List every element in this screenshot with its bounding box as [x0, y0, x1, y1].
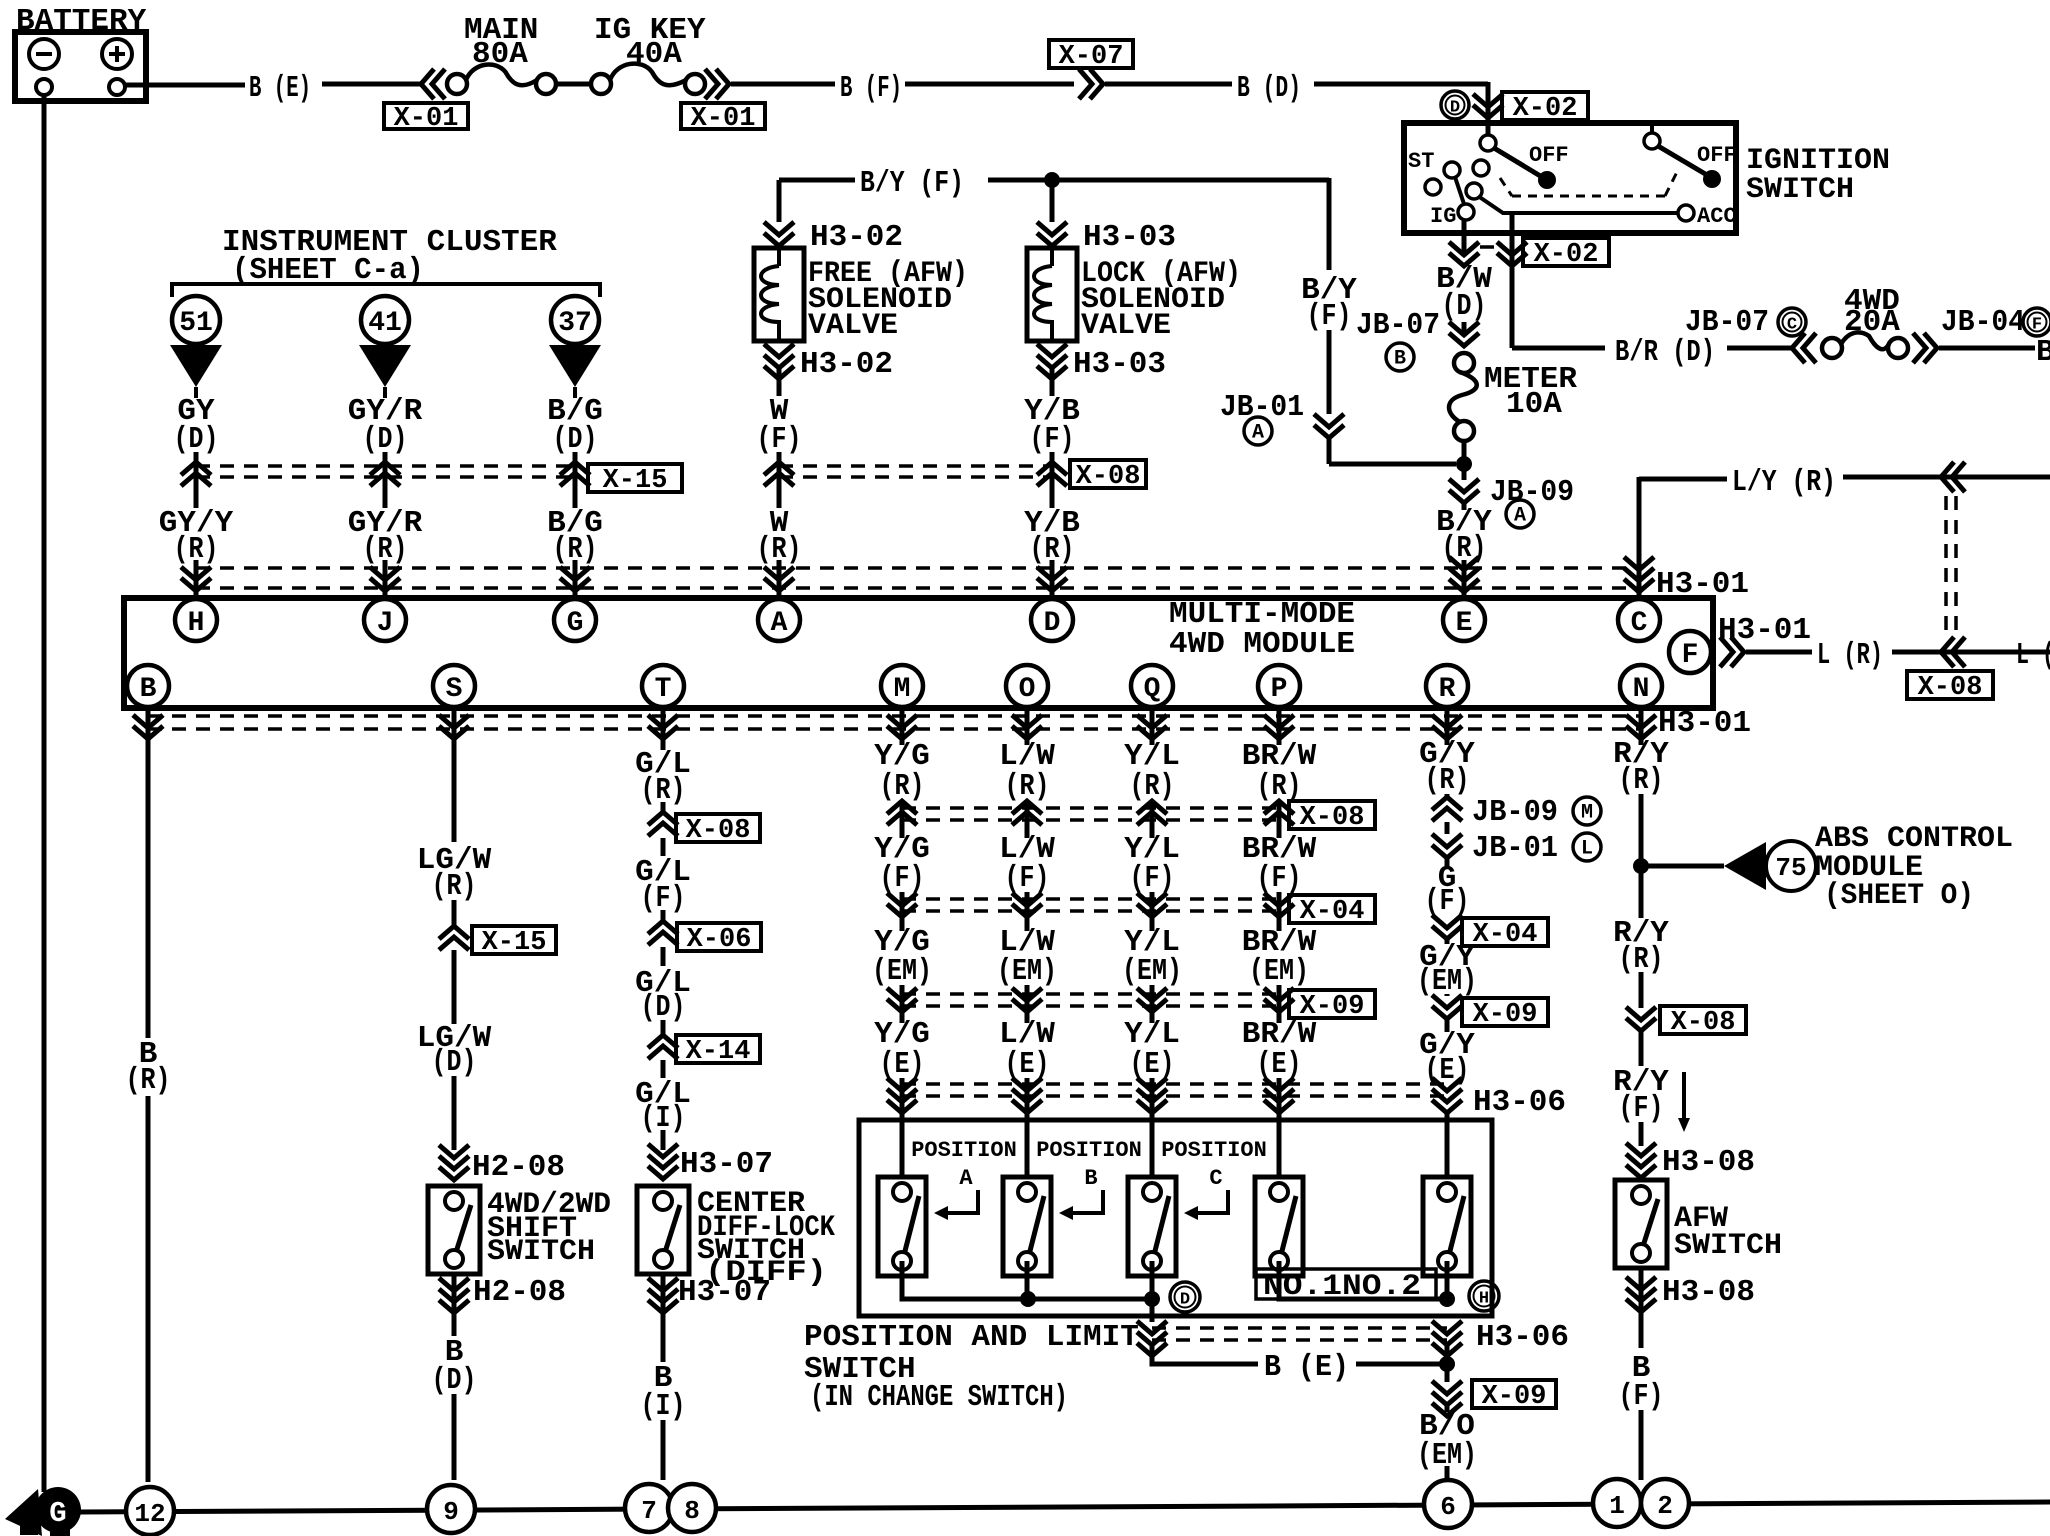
- wire: [1445, 1019, 1450, 1032]
- wire: [125, 83, 245, 88]
- fuse METER 10A: [1454, 353, 1474, 373]
- wire T to terminals 7 8: [661, 1420, 666, 1480]
- connector box X-01 left: [384, 103, 468, 129]
- svg-text:OFF: OFF: [1697, 143, 1737, 168]
- battery plus sign v: [115, 46, 119, 62]
- connector X-15 arrows lower: [439, 926, 469, 950]
- wire: [1462, 503, 1467, 510]
- wire: [1025, 892, 1030, 931]
- wire: [1639, 1268, 1644, 1348]
- wire: [1445, 858, 1450, 866]
- position switch 3: [1128, 1177, 1176, 1276]
- svg-text:(R): (R): [1619, 763, 1664, 798]
- wire: [322, 82, 421, 87]
- wire into position box: [1025, 1120, 1030, 1177]
- svg-text:B (F): B (F): [840, 71, 902, 106]
- wire: [1445, 939, 1450, 944]
- svg-text:(E): (E): [1005, 1047, 1050, 1082]
- wire: [1445, 1405, 1450, 1412]
- module pin A: [758, 599, 800, 641]
- wire: [1641, 864, 1724, 869]
- svg-text:L (R): L (R): [1817, 638, 1883, 673]
- ignition rotor contacts: [1473, 160, 1489, 176]
- wire: [1150, 1299, 1155, 1322]
- connector X-08 arrows on L/Y: [1941, 462, 1965, 492]
- wire: [1150, 892, 1155, 931]
- svg-text:POSITION AND LIMIT: POSITION AND LIMIT: [804, 1320, 1139, 1355]
- ignition dashed rotor path: [1500, 178, 1512, 196]
- svg-text:X-15: X-15: [603, 466, 668, 496]
- wire: [900, 1078, 905, 1120]
- ignition B contact and left OFF lever: [1480, 135, 1496, 151]
- wire: [573, 452, 578, 508]
- wire S to terminal 9: [452, 1394, 457, 1480]
- wire: [900, 740, 905, 742]
- connector box X-08 T: [676, 814, 760, 842]
- position switch 2: [1003, 1177, 1051, 1276]
- wire: [1150, 707, 1155, 745]
- wire: [661, 1020, 666, 1035]
- svg-text:R: R: [1439, 674, 1456, 705]
- return arrow line: [946, 1190, 978, 1213]
- cluster pin 37: [551, 296, 599, 344]
- module pin C: [1618, 599, 1660, 641]
- connector H2-08 arrows lower: [439, 1278, 469, 1313]
- connector arrows right: [1913, 333, 1937, 363]
- wire: [1150, 800, 1155, 838]
- connector X-07 arrows: [1079, 69, 1103, 99]
- svg-text:POSITION: POSITION: [1161, 1138, 1267, 1163]
- wire: [1462, 322, 1467, 335]
- wire: [900, 800, 905, 838]
- svg-text:X-09: X-09: [1482, 1382, 1547, 1412]
- H3-01 lower dashed lines: [148, 714, 1641, 718]
- wire: [1445, 914, 1450, 919]
- connector H3-03 top arrows: [1037, 222, 1067, 246]
- wire to terminal 6: [1445, 1466, 1450, 1482]
- connector box X-02 top: [1502, 92, 1588, 120]
- svg-text:X-02: X-02: [1534, 240, 1599, 270]
- connector H3-03 bottom arrows: [1037, 344, 1067, 379]
- ignition ST-IG lever: [1455, 177, 1464, 204]
- svg-text:X-14: X-14: [686, 1037, 751, 1067]
- wire: [777, 248, 781, 266]
- terminal 12: [126, 1487, 174, 1535]
- wire into position box: [1150, 1120, 1155, 1177]
- wire: [1682, 1072, 1686, 1118]
- svg-text:L (R: L (R: [2016, 638, 2050, 673]
- stub: [573, 387, 577, 398]
- wire: [1356, 1362, 1447, 1367]
- svg-text:SWITCH: SWITCH: [1674, 1229, 1782, 1263]
- X-02 dash: [1480, 245, 1498, 249]
- svg-text:JB-01: JB-01: [1220, 390, 1304, 425]
- wire battery minus to ground: [42, 95, 47, 1492]
- wire: [1939, 346, 2035, 351]
- svg-text:S: S: [446, 674, 463, 705]
- svg-text:H3-03: H3-03: [1083, 220, 1176, 255]
- row3 dashes: [902, 897, 1279, 901]
- svg-text:ST: ST: [1408, 149, 1434, 174]
- ref circle M: [1573, 797, 1601, 825]
- connector H3-08 arrows upper: [1626, 1143, 1656, 1178]
- wire: [1445, 1345, 1450, 1382]
- wire: [1277, 740, 1282, 742]
- svg-text:NO.1NO.2: NO.1NO.2: [1263, 1270, 1421, 1304]
- svg-text:JB-01: JB-01: [1472, 831, 1558, 866]
- wire: [731, 82, 835, 87]
- svg-text:A: A: [1252, 422, 1264, 445]
- svg-text:J: J: [377, 608, 394, 639]
- wire L(R): [1746, 650, 1812, 655]
- wire: [661, 838, 666, 856]
- cluster arrow 51: [170, 345, 222, 387]
- ignition left OFF dot: [1538, 171, 1556, 189]
- wire: [661, 802, 666, 812]
- wire: [1445, 994, 1450, 996]
- wire B(D) down to ignition: [1486, 82, 1491, 135]
- connector X-08 arrows T: [648, 812, 678, 836]
- wire: [777, 320, 781, 341]
- connector box X-08 row2: [1289, 801, 1375, 829]
- connector JB arrows left: [1792, 333, 1816, 363]
- bracket: [172, 284, 600, 297]
- connector H3-02 top arrows: [764, 222, 794, 246]
- ignition switch box: [1404, 123, 1736, 233]
- bus2: [1279, 1261, 1447, 1299]
- wire L/Y corner: [1639, 477, 1727, 482]
- junction B(E): [1439, 1356, 1455, 1372]
- connector box X-01 right: [681, 103, 765, 129]
- row2 dashes: [902, 806, 1279, 810]
- connector H3-06 arrows lower right: [1432, 1321, 1462, 1356]
- junction sw2: [1020, 1291, 1036, 1307]
- connector box X-15 lower: [472, 926, 556, 954]
- svg-text:6: 6: [1440, 1492, 1456, 1522]
- junction D: [1144, 1291, 1160, 1307]
- svg-text:41: 41: [368, 308, 402, 339]
- connector H3-08 arrows lower: [1626, 1277, 1656, 1312]
- svg-text:(EM): (EM): [1417, 964, 1477, 999]
- svg-text:L/Y (R): L/Y (R): [1732, 465, 1836, 500]
- ref circle D position: [1170, 1282, 1200, 1312]
- svg-text:VALVE: VALVE: [1081, 309, 1171, 343]
- wire: [452, 707, 457, 745]
- svg-text:37: 37: [558, 308, 592, 339]
- wire: [779, 178, 855, 183]
- svg-text:G: G: [567, 608, 584, 639]
- svg-text:(D): (D): [174, 422, 219, 457]
- switch AFW: [1615, 1180, 1667, 1268]
- wire R into position box: [1445, 1113, 1450, 1177]
- connector X-02 bottom arrows right: [1497, 242, 1527, 266]
- connector box X-08 right: [1907, 671, 1993, 699]
- battery minus sign: [36, 52, 52, 56]
- svg-text:4WD MODULE: 4WD MODULE: [1169, 627, 1355, 662]
- module pin G: [554, 599, 596, 641]
- terminal 1: [1593, 1479, 1641, 1527]
- ref circle F: [2023, 308, 2050, 336]
- wire C column: [1637, 477, 1642, 598]
- svg-text:51: 51: [179, 308, 213, 339]
- fuse 4WD 20A body: [1822, 338, 1842, 358]
- wire: [1050, 320, 1054, 341]
- svg-text:(R): (R): [1425, 763, 1470, 798]
- wire: [452, 950, 457, 1024]
- wire L(R) cont: [1892, 650, 2050, 655]
- fuse IG KEY 40A body: [591, 74, 611, 94]
- wire: [1843, 475, 2050, 480]
- svg-text:(D): (D): [432, 1363, 477, 1398]
- module pin M: [881, 665, 923, 707]
- svg-text:(E): (E): [1425, 1053, 1470, 1088]
- wire: [1025, 707, 1030, 745]
- wire: [1639, 1031, 1644, 1066]
- connector X-04 arrows R: [1432, 915, 1462, 939]
- ref circle A: [1244, 417, 1272, 445]
- connector X-01 right arrows: [705, 69, 729, 99]
- svg-text:(F): (F): [1619, 1091, 1664, 1126]
- wire: [452, 900, 457, 926]
- svg-text:H3-01: H3-01: [1718, 613, 1811, 648]
- svg-text:(E): (E): [880, 1047, 925, 1082]
- svg-text:X-08: X-08: [1300, 803, 1365, 833]
- svg-text:H3-03: H3-03: [1073, 347, 1166, 382]
- module pin J: [364, 599, 406, 641]
- wire N to terminals 1 2: [1639, 1410, 1644, 1480]
- wire: [1727, 346, 1794, 351]
- connector X-14 arrows: [648, 1035, 678, 1059]
- svg-text:B: B: [1394, 348, 1406, 371]
- ref circle C: [1778, 308, 1806, 336]
- svg-text:H2-08: H2-08: [472, 1150, 565, 1185]
- multi-mode 4wd module box: [124, 598, 1713, 708]
- wire: [777, 180, 782, 222]
- svg-text:(F): (F): [1030, 422, 1075, 457]
- wire: [1277, 707, 1282, 745]
- svg-text:H: H: [1479, 1290, 1489, 1309]
- svg-text:D: D: [1044, 608, 1061, 639]
- module pin R: [1426, 665, 1468, 707]
- wire: [452, 1274, 457, 1336]
- module pin O: [1006, 665, 1048, 707]
- svg-text:POSITION: POSITION: [911, 1138, 1017, 1163]
- stub: [383, 387, 387, 398]
- connector box X-08 upper: [1070, 460, 1146, 488]
- H3-06 lower dashes: [1152, 1326, 1447, 1330]
- switch center diff-lock switch: [637, 1186, 689, 1274]
- connector box X-06: [677, 923, 761, 951]
- svg-text:X-15: X-15: [482, 928, 547, 958]
- wire B/Y to meter junction: [1329, 462, 1456, 467]
- svg-text:C: C: [1209, 1166, 1222, 1191]
- svg-text:E: E: [1456, 608, 1473, 639]
- terminal 8: [668, 1484, 716, 1532]
- wire: [1050, 248, 1054, 266]
- connector box X-08 N: [1660, 1006, 1746, 1034]
- wire: [1105, 82, 1232, 87]
- connector JB-01 A: [1314, 414, 1344, 438]
- connector X-08 arrows N: [1626, 1007, 1656, 1031]
- svg-text:F: F: [2032, 316, 2042, 335]
- wire: [1050, 560, 1055, 598]
- FREE (AFW) solenoid valve: [754, 248, 804, 341]
- svg-text:Q: Q: [1144, 674, 1161, 705]
- svg-text:7: 7: [641, 1496, 657, 1526]
- svg-text:X-08: X-08: [1076, 462, 1141, 492]
- position switch 4: [1255, 1177, 1303, 1276]
- wire: [661, 910, 666, 921]
- svg-text:X-02: X-02: [1513, 94, 1578, 124]
- svg-text:H3-06: H3-06: [1473, 1085, 1566, 1120]
- wire: [661, 1060, 666, 1078]
- svg-text:(D): (D): [553, 422, 598, 457]
- svg-text:C: C: [1631, 608, 1648, 639]
- svg-text:(R): (R): [432, 869, 477, 904]
- position switch 5: [1423, 1177, 1471, 1276]
- terminal 7: [625, 1484, 673, 1532]
- connector X-02 top arrows: [1473, 94, 1503, 118]
- stub: [1650, 123, 1654, 134]
- wire: [1462, 441, 1467, 470]
- svg-text:B (D): B (D): [1237, 71, 1301, 106]
- bus1: [902, 1261, 1152, 1299]
- svg-text:C: C: [1787, 316, 1797, 335]
- svg-text:H3-01: H3-01: [1658, 706, 1751, 741]
- wire: [146, 740, 151, 1038]
- connector X-09 arrows bottom: [1432, 1381, 1462, 1416]
- wire: [777, 368, 782, 396]
- svg-text:(E): (E): [1257, 1047, 1302, 1082]
- svg-text:X-08: X-08: [1918, 673, 1983, 703]
- cluster pin 41: [361, 296, 409, 344]
- svg-text:H3-06: H3-06: [1476, 1320, 1569, 1355]
- wire: [1025, 1078, 1030, 1120]
- svg-text:T: T: [655, 674, 672, 705]
- wire: [661, 1274, 666, 1362]
- svg-text:B: B: [1084, 1166, 1097, 1191]
- wire: [1639, 794, 1644, 918]
- svg-text:B/Y (F): B/Y (F): [860, 166, 964, 201]
- svg-text:H3-08: H3-08: [1662, 1145, 1755, 1180]
- wire: [452, 1076, 457, 1150]
- LOCK (AFW) solenoid valve: [1027, 248, 1077, 341]
- wire: [452, 740, 457, 842]
- svg-text:(E): (E): [1130, 1047, 1175, 1082]
- svg-text:P: P: [1271, 674, 1288, 705]
- connector box X-02 bottom: [1523, 238, 1609, 266]
- H3-06 dashes: [902, 1082, 1447, 1086]
- wire: [1050, 368, 1055, 396]
- ref circle B: [1386, 343, 1414, 371]
- module pin B: [127, 665, 169, 707]
- svg-text:A: A: [771, 608, 788, 639]
- svg-text:(SHEET O): (SHEET O): [1824, 879, 1974, 913]
- wire: [1462, 220, 1467, 255]
- module pin S: [433, 665, 475, 707]
- fuse MAIN 80A body: [447, 74, 467, 94]
- svg-text:(F): (F): [1005, 861, 1050, 896]
- connector box X-14: [676, 1035, 760, 1063]
- switch 4WD/2WD shift switch: [428, 1186, 480, 1274]
- svg-text:(R): (R): [126, 1063, 171, 1098]
- connector box X-09 R: [1462, 998, 1548, 1026]
- svg-text:2: 2: [1657, 1491, 1673, 1521]
- svg-text:A: A: [959, 1166, 973, 1191]
- svg-text:40A: 40A: [626, 37, 682, 72]
- svg-text:(I): (I): [641, 1389, 686, 1424]
- svg-text:10A: 10A: [1506, 387, 1562, 422]
- connector box X-04 R: [1462, 918, 1548, 946]
- wire: [1150, 985, 1155, 1023]
- svg-text:(D): (D): [1442, 289, 1487, 324]
- wire: [146, 707, 151, 745]
- sw2 drop: [1025, 1261, 1030, 1299]
- wire: [1445, 707, 1450, 745]
- position and limit switch box: [859, 1120, 1492, 1316]
- ground bus line: [80, 1502, 2050, 1512]
- module pin D: [1031, 599, 1073, 641]
- svg-text:(EM): (EM): [1249, 954, 1309, 989]
- row4 dashes: [902, 992, 1279, 996]
- module pin E: [1443, 599, 1485, 641]
- svg-text:(D): (D): [641, 990, 686, 1025]
- ignition right OFF dot: [1703, 170, 1721, 188]
- svg-text:IG: IG: [1430, 204, 1456, 229]
- wire to junction: [1327, 438, 1332, 464]
- wire: [900, 892, 905, 931]
- wire: [1277, 985, 1282, 1023]
- svg-text:X-08: X-08: [686, 816, 751, 846]
- svg-text:X-07: X-07: [1059, 42, 1124, 72]
- svg-text:(EM): (EM): [872, 954, 932, 989]
- dashed X-08 link vertical: [1944, 496, 1948, 640]
- ignition right lever: [1658, 146, 1707, 175]
- pin F output H3-01: [1720, 637, 1744, 667]
- junction H: [1439, 1291, 1455, 1307]
- cluster arrow 37: [549, 345, 601, 387]
- svg-text:(IN CHANGE SWITCH): (IN CHANGE SWITCH): [810, 1380, 1068, 1415]
- svg-text:SWITCH: SWITCH: [1746, 173, 1854, 207]
- ref circle A: [1506, 500, 1534, 528]
- connector H3-07 arrows lower: [648, 1278, 678, 1313]
- svg-text:(EM): (EM): [997, 954, 1057, 989]
- svg-text:(D): (D): [363, 422, 408, 457]
- connector box X-15 upper: [588, 464, 682, 492]
- svg-text:B (E): B (E): [1264, 1350, 1349, 1385]
- module pin F: [1669, 631, 1711, 673]
- connector H2-08 arrows upper: [439, 1145, 469, 1180]
- svg-text:(F): (F): [1257, 861, 1302, 896]
- wire: [1025, 800, 1030, 838]
- cluster pin 51: [172, 296, 220, 344]
- cluster arrow 41: [359, 345, 411, 387]
- wire: [1639, 972, 1644, 1008]
- connector H3-02 bottom arrows: [764, 344, 794, 379]
- svg-text:H2-08: H2-08: [473, 1275, 566, 1310]
- wire: [1462, 560, 1467, 598]
- svg-text:D: D: [1450, 99, 1460, 118]
- svg-text:H3-08: H3-08: [1662, 1275, 1755, 1310]
- connector box X-09 bottom: [1472, 1380, 1556, 1408]
- svg-text:B/: B/: [2036, 335, 2050, 370]
- svg-text:(D): (D): [432, 1045, 477, 1080]
- wire: [1277, 800, 1282, 838]
- svg-text:D: D: [1180, 1291, 1190, 1310]
- connector H3-07 arrows upper: [648, 1144, 678, 1179]
- wire: [1510, 213, 1515, 348]
- svg-text:X-04: X-04: [1300, 897, 1365, 927]
